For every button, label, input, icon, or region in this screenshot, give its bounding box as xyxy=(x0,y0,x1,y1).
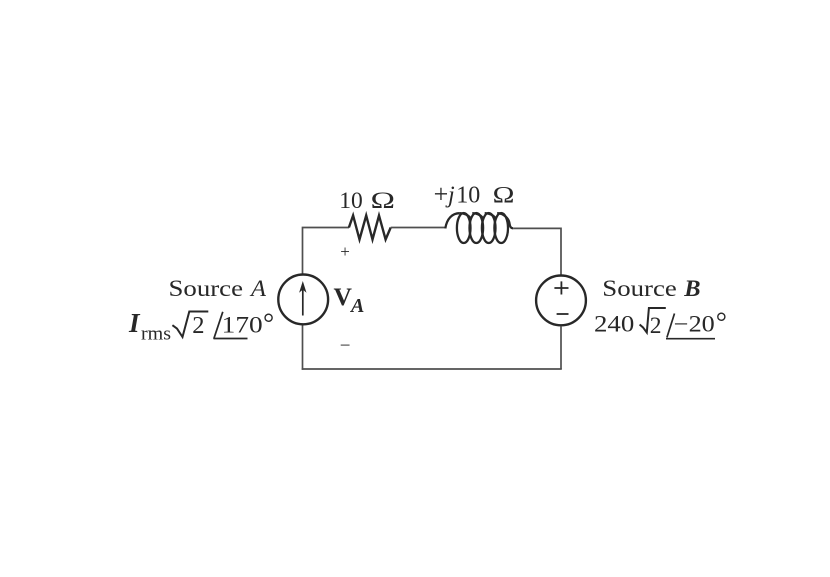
svg-text:A: A xyxy=(349,295,364,317)
inductor L +j10 ohm xyxy=(445,213,513,243)
wire source B bottom to bottom-right corner xyxy=(560,326,562,369)
svg-text:+: + xyxy=(340,242,350,261)
svg-text:°: ° xyxy=(716,308,727,339)
svg-text:10: 10 xyxy=(456,183,480,209)
wire bottom-left corner up to source A xyxy=(302,325,304,370)
svg-text:°: ° xyxy=(263,308,274,339)
source A arrow xyxy=(302,290,304,316)
wire top-left segment xyxy=(303,228,350,274)
svg-text:Ω: Ω xyxy=(492,183,515,209)
svg-text:170: 170 xyxy=(222,312,263,337)
source B minus sign xyxy=(557,313,569,315)
wire inductor to top-right corner and down to source B xyxy=(513,228,561,275)
svg-text:−: − xyxy=(340,336,351,357)
source A value label I_rms sqrt2 angle 170 xyxy=(128,308,274,345)
svg-text:V: V xyxy=(334,282,353,311)
inductor value label +j10 ohm xyxy=(434,180,515,209)
wire between resistor and inductor xyxy=(391,227,446,229)
svg-text:+: + xyxy=(434,180,449,209)
resistor R 10 ohm xyxy=(349,216,391,240)
svg-text:rms: rms xyxy=(141,325,171,345)
source B circle (voltage source) xyxy=(536,276,586,326)
svg-text:2: 2 xyxy=(650,313,662,339)
resistor value label 10 ohm xyxy=(339,188,395,214)
svg-text:Ω: Ω xyxy=(370,188,395,214)
svg-text:Source: Source xyxy=(169,276,244,301)
source B value label 240 sqrt2 angle -20 xyxy=(594,308,727,339)
svg-text:240: 240 xyxy=(594,312,634,337)
source B plus sign xyxy=(554,281,568,294)
svg-text:10: 10 xyxy=(339,188,363,214)
svg-text:2: 2 xyxy=(192,312,204,339)
svg-text:A: A xyxy=(249,276,267,301)
svg-text:−20: −20 xyxy=(674,312,715,337)
svg-text:I: I xyxy=(128,308,141,338)
svg-text:B: B xyxy=(683,276,700,301)
svg-text:Source: Source xyxy=(602,276,677,301)
source A circle (current source) xyxy=(278,275,328,325)
bottom wire xyxy=(302,368,562,370)
